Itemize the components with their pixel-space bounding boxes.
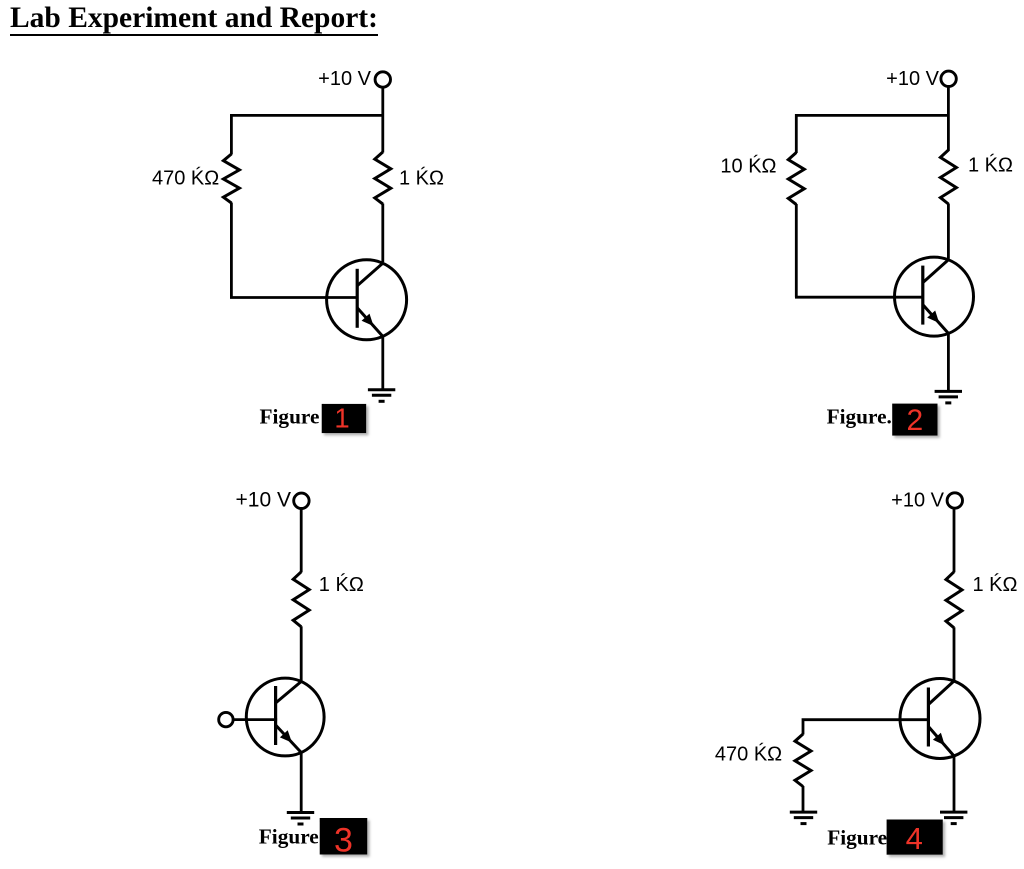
wire supply to rail junction (Figure 2) [947,87,950,151]
wire base to R7 (Figure 4) [803,720,930,735]
wire supply to R6 top (Figure 4) [953,509,956,573]
resistor R6 1 KΩ (Figure 4) [946,572,962,628]
transistor Q4 NPN (Figure 4) [900,679,980,759]
title: Lab Experiment and Report [10,3,378,37]
svg-text:1 ḰΩ: 1 ḰΩ [973,573,1018,596]
svg-text:2: 2 [906,404,923,437]
svg-text:Figure: Figure [827,826,887,850]
wire R6 bottom to collector (Figure 4) [953,627,956,680]
node +10 V terminal (Figure 3) [294,493,309,508]
figure-number box Figure 4 [887,820,943,855]
svg-text:470 ḰΩ: 470 ḰΩ [152,167,219,190]
wire supply to R5 top (Figure 3) [300,509,303,572]
wire supply to rail junction (Figure 1) [381,88,384,153]
svg-text:1 ḰΩ: 1 ḰΩ [399,167,444,190]
wire top rail (Figure 2) [795,114,948,117]
wire R4 bottom to collector (Figure 2) [947,204,950,259]
resistor R4 1 KΩ (Figure 2) [940,150,956,204]
figure-number box Figure 1 [322,404,367,433]
transistor Q1 NPN (Figure 1) [327,260,407,340]
resistor R2 1 KΩ (Figure 1) [375,152,391,204]
transistor Q3 NPN (Figure 3) [246,678,324,756]
wire emitter to ground (Figure 2) [947,333,950,391]
wire emitter to ground (Figure 3) [300,753,303,813]
wire base (Figure 2) [795,296,923,299]
svg-text:Figure.: Figure. [827,404,892,428]
transistor Q2 NPN (Figure 2) [895,257,974,336]
svg-text:+10 V: +10 V [236,489,291,512]
wire R1 bottom to base rail (Figure 1) [230,203,233,298]
wire rail to R1 top (Figure 1) [230,114,233,155]
node +10 V terminal (Figure 1) [375,72,390,87]
figure-number box Figure 3 [320,818,368,855]
resistor R5 1 KΩ (Figure 3) [293,572,309,627]
figure-number box Figure 2 [892,404,937,436]
ground (Figure 3) [287,813,314,825]
resistor R3 10 KΩ (Figure 2) [788,153,804,205]
svg-text:3: 3 [334,822,353,860]
ground at R7 (Figure 4) [790,812,817,824]
wire rail to R3 top (Figure 2) [795,114,798,153]
wire base (Figure 3) [234,718,277,721]
svg-text:470 ḰΩ: 470 ḰΩ [715,743,782,766]
svg-text:1 ḰΩ: 1 ḰΩ [319,573,364,596]
svg-text:+10 V: +10 V [886,68,939,90]
resistor R7 470 KΩ (Figure 4) [795,734,811,787]
svg-text:1 ḰΩ: 1 ḰΩ [968,153,1013,176]
ground (Figure 1) [368,390,395,402]
node +10 V terminal (Figure 2) [941,71,956,86]
svg-text:+10 V: +10 V [891,489,944,511]
wire emitter to ground (Figure 1) [381,336,384,389]
node +10 V terminal (Figure 4) [947,493,962,508]
svg-text:4: 4 [906,821,923,856]
wire top rail (Figure 1) [230,114,383,117]
svg-text:Figure: Figure [260,405,320,429]
wire R7 bottom to ground (Figure 4) [802,786,805,812]
svg-text:Figure: Figure [259,824,319,848]
wire R3 bottom to base rail (Figure 2) [795,204,798,297]
wire R5 bottom to collector (Figure 3) [300,626,303,680]
resistor R1 470 KΩ (Figure 1) [223,154,239,203]
ground at emitter (Figure 4) [940,812,967,824]
wire R2 bottom to collector (Figure 1) [381,204,384,263]
wire emitter to ground (Figure 4) [953,756,956,812]
svg-text:+10 V: +10 V [318,68,371,90]
svg-text:1: 1 [334,403,349,434]
wire base (Figure 1) [230,296,357,299]
svg-text:10 ḰΩ: 10 ḰΩ [720,155,776,178]
node open base terminal (Figure 3) [219,712,233,726]
ground (Figure 2) [935,391,962,403]
